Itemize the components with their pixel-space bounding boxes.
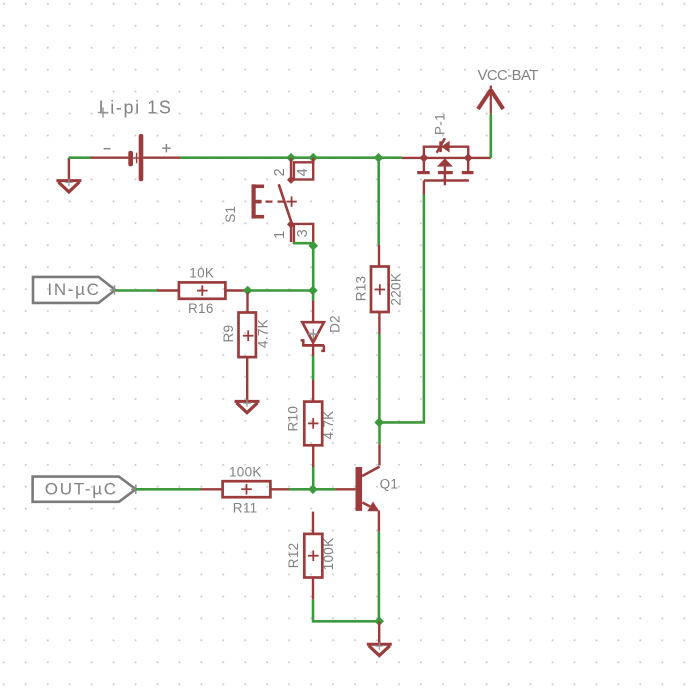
svg-text:1: 1 bbox=[272, 231, 288, 239]
node junction gate-collector bbox=[374, 418, 384, 428]
svg-text:100K: 100K bbox=[321, 538, 336, 571]
label flag IN-uC bbox=[33, 277, 115, 303]
svg-text:D2: D2 bbox=[328, 315, 343, 333]
wire D2 to R10 bbox=[312, 356, 315, 380]
diode D2 origin cross bbox=[308, 329, 318, 339]
node junction rail-pin4 bbox=[308, 153, 318, 163]
ground GND3 (bottom) bbox=[367, 621, 392, 655]
ground GND1 (battery minus) bbox=[56, 158, 81, 192]
node junction pin3 bbox=[308, 241, 318, 251]
node OUT-uC tip cross bbox=[131, 485, 140, 494]
supply VCC-BAT bbox=[478, 86, 503, 114]
svg-text:VCC-BAT: VCC-BAT bbox=[478, 68, 539, 84]
wire OUT-uC to R11 bbox=[136, 488, 201, 491]
svg-text:R9: R9 bbox=[221, 325, 236, 343]
transistor Q1 bbox=[335, 444, 379, 532]
wire battery minus to ground bbox=[69, 156, 92, 159]
wire IN node to D2 bbox=[312, 291, 315, 302]
svg-text:100K: 100K bbox=[229, 465, 262, 480]
wire R12 to emitter node bbox=[313, 599, 379, 621]
wire R16 to IN node bbox=[244, 289, 313, 292]
svg-text:220K: 220K bbox=[388, 273, 403, 306]
svg-text:OUT-µC: OUT-µC bbox=[45, 479, 118, 498]
resistor R10 bbox=[304, 380, 322, 467]
ground GND2 origin cross bbox=[243, 399, 251, 407]
wire switch pin3 down to IN net bbox=[293, 243, 314, 290]
resistor R11 bbox=[201, 481, 289, 497]
wire gate node to T1 gate bbox=[379, 195, 424, 423]
resistor R12 bbox=[304, 512, 322, 600]
svg-text:IN-µC: IN-µC bbox=[47, 280, 100, 299]
ground GND1 origin cross bbox=[65, 179, 73, 187]
svg-text:R13: R13 bbox=[353, 276, 368, 302]
svg-text:R12: R12 bbox=[286, 543, 301, 569]
wire IN-uC to R16 bbox=[115, 289, 157, 292]
node junction base bbox=[308, 485, 318, 495]
wire collector to gate node bbox=[378, 422, 381, 444]
label flag OUT-uC bbox=[33, 477, 136, 502]
wire T1 to VCC bbox=[489, 114, 492, 158]
svg-text:4: 4 bbox=[295, 168, 311, 176]
node IN-uC tip cross bbox=[110, 285, 119, 294]
diode D2 (zener) bbox=[301, 301, 325, 356]
wire R10 to base node bbox=[312, 467, 315, 489]
svg-text:P-1: P-1 bbox=[433, 113, 448, 135]
battery G1 Li-pi 1S bbox=[91, 134, 181, 181]
svg-text:2: 2 bbox=[272, 168, 288, 176]
svg-text:Li-pi 1S: Li-pi 1S bbox=[99, 97, 173, 117]
svg-text:4.7K: 4.7K bbox=[256, 319, 271, 348]
svg-text:Q1: Q1 bbox=[380, 476, 399, 491]
transistor T1 P-MOSFET bbox=[402, 138, 491, 194]
node junction IN-D2 bbox=[308, 286, 318, 296]
svg-text:4.7K: 4.7K bbox=[321, 411, 336, 440]
wire R13 to gate node bbox=[378, 334, 381, 422]
ground GND2 (under R9) bbox=[235, 401, 260, 412]
node junction rail-R13 bbox=[374, 153, 384, 163]
svg-text:R11: R11 bbox=[233, 500, 258, 515]
battery G1 origin cross bbox=[98, 107, 108, 117]
resistor R13 bbox=[371, 245, 389, 334]
resistor R9 bbox=[239, 293, 256, 402]
svg-text:10K: 10K bbox=[189, 265, 214, 280]
node junction R16-R9 bbox=[243, 286, 253, 296]
wire emitter down bbox=[378, 532, 381, 622]
node junction rail-pin2 bbox=[286, 153, 296, 163]
wire top rail bbox=[180, 156, 402, 159]
svg-text:R16: R16 bbox=[188, 301, 214, 316]
wire R11 to base node bbox=[289, 488, 335, 491]
svg-text:R10: R10 bbox=[286, 406, 301, 432]
switch S1 bbox=[252, 158, 314, 243]
svg-text:3: 3 bbox=[295, 229, 311, 237]
resistor R16 bbox=[157, 282, 244, 298]
node junction emitter-ground bbox=[374, 617, 384, 627]
ground GND3 origin cross bbox=[376, 642, 384, 650]
svg-text:S1: S1 bbox=[223, 206, 238, 223]
wire rail to R13 bbox=[377, 158, 380, 245]
